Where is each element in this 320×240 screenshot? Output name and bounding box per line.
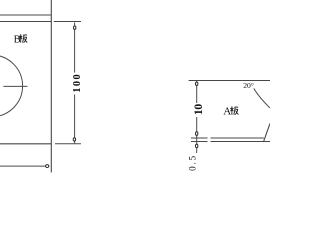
- B-plate upper horizontal edge 2 (top of B plate): [0, 21, 51, 23]
- dot arrowhead top of 100 dimension: [74, 26, 76, 29]
- centerline of circle: [3, 85, 27, 87]
- svg-text:10: 10: [191, 104, 205, 116]
- dot arrowhead bottom of 100 dimension: [73, 138, 75, 141]
- extension line for A-plate bottom edge: [191, 137, 208, 139]
- dot arrowhead below 0.5 gap: [196, 144, 198, 148]
- dot arrowhead top of 10 dimension: [196, 82, 198, 86]
- horizontal dimension line at bottom left (value off image): [0, 165, 49, 167]
- svg-text:20°: 20°: [243, 81, 254, 90]
- svg-text:A: A: [223, 105, 231, 117]
- lower plate top edge: [211, 141, 271, 143]
- A-plate bottom edge: [211, 137, 264, 139]
- extension line for lower plate top edge: [191, 141, 208, 143]
- extension line bottom right of B plate: [55, 143, 81, 145]
- angled parting face (20 deg from vertical): [264, 123, 270, 141]
- dimension line 100 (vertical) lower segment: [74, 95, 76, 144]
- dimension line 10 upper segment: [196, 81, 198, 103]
- B-plate upper horizontal edge 1: [0, 14, 51, 16]
- dimension line 100 (vertical) upper segment: [74, 23, 76, 73]
- circle (guide hole) in B plate, clipped by left image edge: [0, 55, 23, 117]
- extension line top right of B plate: [54, 21, 81, 23]
- dot arrowhead bottom of 10 dimension: [196, 132, 198, 136]
- label B plate: character ban drawn as paths: [19, 34, 27, 43]
- B-plate right edge (vertical object line + extension line below): [50, 0, 52, 173]
- B-plate bottom edge: [0, 143, 51, 145]
- dimension line 10/0.5 lower segment: [196, 117, 198, 153]
- svg-text:100: 100: [72, 74, 83, 93]
- A-plate top edge (with its extension line, detail view): [189, 80, 270, 82]
- svg-text:0.5: 0.5: [187, 155, 197, 170]
- dot arrowhead of bottom-left dimension: [46, 165, 49, 168]
- label A plate: character ban drawn as paths: [230, 106, 238, 115]
- curved leader line from 20 degree label: [254, 88, 270, 108]
